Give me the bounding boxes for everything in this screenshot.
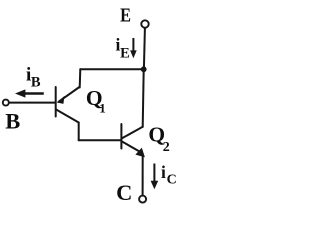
svg-text:E: E bbox=[120, 46, 130, 62]
transistor Q2 emitter arrowhead bbox=[135, 148, 145, 158]
current arrow iC bbox=[151, 164, 159, 190]
wire Q2 emitter down to C bbox=[142, 156, 144, 195]
wire Q1 collector to Q2 base bbox=[79, 139, 121, 141]
wire node down to Q2 collector bbox=[143, 69, 144, 127]
transistor Q2 collector diagonal bbox=[122, 127, 143, 139]
wire node to E terminal bbox=[144, 28, 145, 69]
terminal B bbox=[3, 100, 9, 106]
terminal C bbox=[139, 196, 146, 203]
svg-text:2: 2 bbox=[163, 140, 170, 155]
svg-text:B: B bbox=[5, 108, 20, 133]
svg-text:C: C bbox=[116, 180, 132, 205]
svg-text:i: i bbox=[161, 162, 166, 182]
transistor Q1 emitter diagonal bbox=[59, 87, 80, 102]
svg-text:C: C bbox=[167, 173, 177, 188]
current arrow iB bbox=[15, 89, 44, 97]
node junction dot bbox=[141, 66, 147, 72]
transistor Q1 emitter arrowhead bbox=[57, 96, 65, 104]
wire Q1 collector vertical bbox=[78, 123, 80, 141]
wire top horizontal to node bbox=[80, 68, 143, 70]
terminal E bbox=[141, 20, 148, 27]
current arrow iE bbox=[130, 38, 137, 58]
transistor Q1 base bar bbox=[55, 87, 57, 117]
transistor Q2 emitter diagonal bbox=[122, 142, 141, 153]
wire Q1 emitter vertical bbox=[79, 69, 82, 87]
svg-text:1: 1 bbox=[99, 101, 106, 116]
svg-text:B: B bbox=[31, 75, 41, 91]
svg-text:E: E bbox=[120, 5, 131, 27]
wire B to Q1 base bbox=[9, 102, 54, 104]
wire Q1 collector diagonal bbox=[56, 109, 79, 122]
transistor Q2 base bar bbox=[120, 124, 122, 149]
